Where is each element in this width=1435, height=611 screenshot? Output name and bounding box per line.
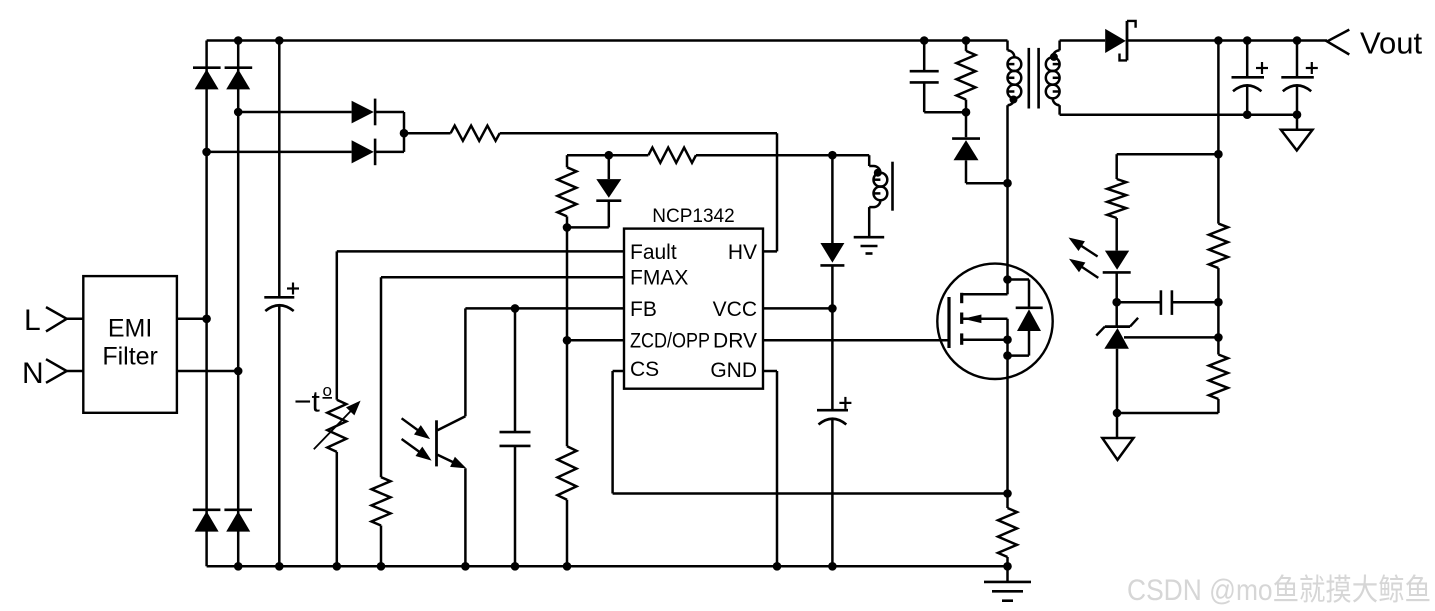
node CS sense junction — [1003, 489, 1012, 498]
wire FB pin — [465, 307, 624, 310]
node fb tap junction — [1214, 150, 1223, 159]
transformer core lines — [1028, 48, 1031, 109]
node ZCD junction — [563, 336, 572, 345]
resistor R7 snubber — [965, 41, 968, 51]
wire top (+) rail — [207, 39, 1008, 42]
svg-text:GND: GND — [710, 359, 757, 382]
ground aux winding — [854, 236, 885, 239]
node R2 rail junction — [377, 562, 386, 571]
transformer T1 primary winding — [1006, 41, 1009, 51]
node return C6 junction — [1293, 110, 1302, 119]
node FB cap junction — [511, 304, 520, 313]
wire aux winding to ground — [869, 206, 873, 209]
diode D5 HV startup upper — [352, 101, 374, 124]
resistor R5 ZCD pulldown — [558, 446, 577, 499]
resistor R2 FMAX — [372, 477, 391, 525]
wire N bridge column — [237, 41, 240, 567]
wire R3 bottom — [566, 216, 569, 227]
resistor R6 current sense — [1006, 494, 1009, 509]
node L line HV tap — [202, 148, 211, 157]
wire C3 to rail — [831, 418, 834, 566]
wire bottom (-) rail — [207, 565, 1008, 568]
svg-text:L: L — [24, 304, 41, 337]
wire snubber cap top — [923, 41, 926, 72]
aux core line — [891, 162, 894, 211]
node opto rail junction — [461, 562, 470, 571]
thermistor RT1 NTC — [327, 400, 346, 452]
node Q1 drain — [1003, 275, 1012, 284]
svg-text:NCP1342: NCP1342 — [652, 206, 734, 227]
svg-text:DRV: DRV — [713, 330, 757, 353]
svg-text:Fault: Fault — [630, 241, 677, 264]
wire R9 to anode node — [1217, 399, 1220, 413]
node return C5 junction — [1243, 110, 1252, 119]
diode D7 OPP — [608, 155, 611, 179]
transistor Q1 MOSFET — [937, 264, 1052, 379]
wire VCC node to C3 — [831, 308, 834, 410]
Q1 body diode — [1008, 278, 1030, 281]
node C3 rail junction — [828, 562, 837, 571]
node snubber cap rail junction — [920, 36, 929, 45]
wire Q1 source to CS — [1006, 356, 1009, 494]
diode D11 opto LED — [1105, 251, 1129, 270]
node Vout C6 junction — [1293, 36, 1302, 45]
diode D6 HV startup lower — [352, 140, 374, 163]
capacitor C5 output (polarized) — [1246, 41, 1249, 78]
diode D9 clamp — [965, 112, 968, 137]
node divider ref junction — [1214, 333, 1223, 342]
node bottom rail N junction — [234, 562, 243, 571]
wire divider mid — [1217, 302, 1220, 337]
wire D6 to corner — [375, 151, 404, 154]
opto light arrows — [402, 418, 421, 432]
wire ZCD column upper — [566, 155, 569, 167]
resistor R1 HV series — [451, 126, 500, 141]
wire divider to R9 — [1217, 337, 1220, 354]
wire N to D5 — [238, 111, 351, 114]
capacitor C3 VCC (polarized) — [817, 409, 848, 412]
svg-text:HV: HV — [728, 241, 757, 264]
aux winding phase dot — [874, 169, 882, 177]
node C2 rail junction — [511, 562, 520, 571]
node GND rail junction — [773, 562, 782, 571]
node divider cap junction — [1214, 298, 1223, 307]
node snubber RC junction — [962, 108, 971, 117]
svg-text:EMI: EMI — [108, 315, 152, 343]
wire aux node to D8 — [831, 155, 834, 243]
wire FB cap top — [514, 308, 517, 432]
node R5 rail junction — [563, 562, 572, 571]
node L-line junction — [202, 315, 211, 324]
node Q1 source lower — [1003, 351, 1012, 360]
secondary phase dot — [1050, 53, 1058, 61]
node Vout C5 junction — [1243, 36, 1252, 45]
wire TL431 ref — [1124, 336, 1218, 339]
node N-line junction — [234, 367, 243, 376]
wire EMI L output — [177, 318, 207, 321]
wire divider top — [1217, 41, 1220, 224]
svg-text:Filter: Filter — [102, 343, 158, 371]
primary phase dot — [1010, 96, 1018, 104]
svg-text:N: N — [22, 357, 44, 390]
wire node to ZCD — [566, 227, 569, 340]
svg-text:CS: CS — [630, 358, 659, 381]
wire DRV pin to gate — [763, 339, 949, 342]
node opto cathode junction — [1112, 298, 1121, 307]
node top rail N junction — [234, 36, 243, 45]
node Q1 source upper — [1003, 335, 1012, 344]
wire GND pin — [763, 370, 777, 373]
wire C2 to rail — [514, 446, 517, 566]
wire secondary return rail — [1060, 113, 1297, 116]
wire OPP top row — [567, 154, 648, 157]
wire FB to opto collector — [464, 308, 467, 416]
capacitor C7 compensation — [1160, 290, 1163, 315]
transformer T1 secondary winding — [1058, 41, 1061, 51]
wire D5 to corner — [375, 111, 404, 114]
EMI filter block — [83, 276, 177, 413]
wire R1 to HV pin — [500, 132, 777, 135]
wire LED to cathode node — [1115, 272, 1118, 302]
wire cathode to C7 — [1117, 301, 1161, 304]
wire Vout rail — [1127, 39, 1327, 42]
node snubber res rail junction — [962, 36, 971, 45]
node R3-D7 junction — [563, 223, 572, 232]
node N line HV tap — [234, 108, 243, 117]
wire snubber cap bottom — [923, 82, 926, 112]
node top rail bulk junction — [275, 36, 284, 45]
capacitor C6 output (polarized) — [1296, 41, 1299, 78]
svg-text:FMAX: FMAX — [630, 267, 688, 290]
wire L to D6 — [207, 151, 352, 154]
node VCC junction — [828, 304, 837, 313]
wire RT1 to rail — [336, 452, 339, 566]
watermark CSDN — [1127, 565, 1435, 609]
wire L bridge column — [205, 41, 208, 567]
svg-text:Vout: Vout — [1360, 26, 1422, 61]
svg-text:o: o — [323, 381, 332, 400]
op-amp U1 NCP1342 controller box — [624, 229, 763, 389]
wire opto emitter to rail — [464, 468, 467, 566]
node Vout divider junction — [1214, 36, 1223, 45]
LED light arrows — [1080, 245, 1097, 256]
svg-text:ZCD/OPP: ZCD/OPP — [630, 330, 710, 353]
wire primary to drain — [1006, 105, 1009, 279]
node bottom rail bulk junction — [275, 562, 284, 571]
node HV diodes junction — [400, 129, 409, 138]
svg-text:−t: −t — [294, 385, 321, 418]
resistor R8 divider upper — [1209, 224, 1228, 269]
wire R4 to aux node — [696, 154, 832, 157]
wire aux node to winding — [832, 154, 869, 157]
inductor T1 aux winding — [874, 166, 881, 173]
wire bulk cap top — [278, 41, 281, 298]
diode D2 bridge top-right — [225, 66, 253, 69]
zener U3 TL431 shunt regulator — [1115, 302, 1118, 326]
diode D4 bridge bottom-right — [224, 508, 252, 511]
transistor U2 optocoupler phototransistor — [435, 420, 438, 466]
wire D8 to VCC node — [831, 265, 834, 308]
wire ZCD pin — [567, 339, 624, 342]
resistor R9 divider lower — [1209, 355, 1228, 400]
node drain clamp junction — [1003, 179, 1012, 188]
svg-text:VCC: VCC — [713, 298, 757, 321]
ground TL431 anode — [1116, 413, 1119, 438]
wire secondary top to D10 — [1060, 39, 1106, 42]
wire Fault pin — [337, 250, 624, 253]
wire R10 to LED — [1115, 218, 1118, 251]
wire R5 to rail — [566, 500, 569, 567]
capacitor C1 bulk (polarized) — [264, 296, 294, 299]
diode D3 bridge bottom-left — [193, 508, 221, 511]
capacitor C2 FB filter — [500, 431, 531, 434]
wire FMAX pin — [381, 276, 624, 279]
resistor R4 ZCD series — [648, 148, 696, 163]
resistor R3 OPP upper — [558, 167, 577, 216]
wire C7 to divider — [1172, 301, 1219, 304]
node TL431 anode junction — [1113, 409, 1122, 418]
diode D8 VCC charge — [820, 243, 844, 263]
node aux junction — [828, 151, 837, 160]
diode D1 bridge top-left — [193, 66, 221, 69]
wire CS pin — [613, 370, 624, 373]
wire ZCD pulldown top — [566, 340, 569, 446]
resistor R10 LED series — [1107, 179, 1126, 218]
wire fb tap to R10 — [1117, 153, 1219, 156]
ground sense resistor — [1006, 566, 1009, 582]
terminal Vout — [1327, 30, 1349, 55]
node sense rail junction — [1003, 562, 1012, 571]
ground output return — [1296, 115, 1299, 130]
wire VCC pin — [763, 307, 832, 310]
wire node to R1 — [404, 132, 451, 135]
svg-text:FB: FB — [630, 298, 657, 321]
wire R2 to rail — [380, 526, 383, 567]
wire EMI N output — [177, 370, 238, 373]
wire R8 to node — [1217, 268, 1220, 302]
node D7 top junction — [605, 151, 614, 160]
diode D10 output schottky — [1105, 29, 1126, 53]
capacitor C4 snubber — [910, 70, 939, 73]
node RT1 rail junction — [333, 562, 342, 571]
wire bulk cap bottom — [278, 305, 281, 567]
